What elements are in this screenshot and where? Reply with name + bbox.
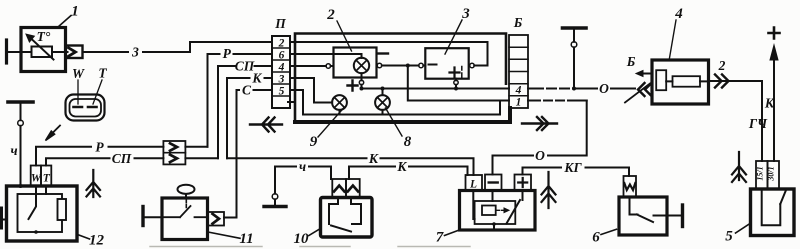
wire 2 to ignition switch [709,81,763,161]
plug pin marks [74,106,97,109]
wire 3 [83,51,129,53]
connector P (instrument plug) [272,36,290,108]
leader for label 7 [445,230,459,235]
svg-text:ч: ч [10,143,17,158]
switch 11 (box) [162,198,208,240]
output chevrons of fuse 4 [715,75,729,88]
wire KG from relay 7 plus to switch 6 [523,168,630,177]
svg-text:6: 6 [279,50,285,62]
dashed mark right of plus [461,67,463,79]
lamp 2 bulb [354,58,369,73]
svg-text:Т: Т [98,66,107,81]
lamp 2 right terminal circle [377,63,382,68]
ignition terminal cell 15/1 [756,161,768,189]
junction node [454,87,458,91]
wire R to pin 6 [208,54,273,147]
connector chevron box right of 11 [208,212,224,226]
svg-text:10: 10 [294,231,310,247]
switch 6 (box) [619,197,667,235]
wire from pin 1 of B (dash-dot) down to relay 7 minus [528,100,587,102]
svg-text:К: К [368,151,379,166]
svg-text:9: 9 [310,134,318,150]
leader for label 6 [601,229,617,234]
svg-text:4: 4 [515,85,522,97]
wire from pin2 across box top to gauge 3 output [295,42,488,66]
wire S to pin 5 [237,90,273,218]
wire 3 continues, step up to pin 2 of P [143,42,272,52]
svg-text:Р: Р [223,46,232,61]
gauge box 2 [334,48,377,78]
ground riser with circle [274,167,276,194]
stubs from P to instrument box [290,42,295,90]
svg-text:8: 8 [404,134,412,150]
chevrons in connector pair [170,143,177,150]
svg-text:2: 2 [718,58,726,73]
svg-text:СП: СП [112,151,132,166]
terminal W cell on box 12 [31,166,41,187]
leader for label 8 [386,108,403,136]
gauge 3 bottom stub with terminal circle [455,79,457,81]
sender 10 wiper [331,226,351,232]
gauge 3 left terminal circle [419,63,424,68]
wire pin5 down and along bottom bus [295,90,500,115]
leader for label 3 [445,20,462,54]
upper wire K from P pin 3 to relay 7 [227,158,474,175]
arrow through resistor [31,39,54,60]
SECTION: connector P and nest wires [208,16,296,218]
lamp 2 bottom lead with terminal circle [361,73,363,80]
gauge 3 right terminal circle [470,63,475,68]
svg-text:Б: Б [513,15,523,30]
relay 7 terminal minus [485,175,502,191]
ignition terminal cell 30/1 [768,161,780,189]
thick bottom border of big box [295,108,510,122]
zigzags in sender cells [334,186,344,192]
relay 7 inner box [475,201,516,224]
wire SP from T cell [46,158,163,165]
switch 11 internals [162,206,208,217]
svg-text:11: 11 [239,231,253,247]
overhead terminal bar [563,26,587,30]
fuse block 4 (box) [652,60,709,104]
plus inside gauge 3 [450,68,460,78]
relay 7 terminal L [466,175,483,191]
svg-text:W: W [72,66,85,81]
scan edge line at bottom [150,246,470,248]
wire O from pin 4 of B (dash-dot) [528,88,635,90]
leader for label 2 [337,21,352,51]
arrow to battery [641,73,652,75]
junction node [381,87,385,91]
top-left terminal bar [8,100,33,104]
terminal stem with circle [573,30,575,42]
relay 7 (box) [460,191,536,231]
svg-text:3: 3 [278,74,285,86]
wire from junction down to pin 1 of B [408,66,509,101]
svg-text:ГЧ: ГЧ [748,116,768,131]
svg-text:1: 1 [516,97,522,109]
plus feed arrow top right [769,28,780,39]
SECTION: bottom middle relays 7 10 11 and ground [227,101,683,248]
sender 10 connector cell left [332,179,346,197]
leader for label 4 [670,20,677,58]
svg-text:2: 2 [326,7,335,23]
svg-text:6: 6 [592,230,600,246]
svg-text:7: 7 [436,230,444,246]
svg-text:Б: Б [626,54,636,69]
stub of empty pin [288,101,295,103]
wire O down to relay 7 [493,101,587,175]
relay 7 contact blade [473,191,522,224]
inner terminal square of fuse block [656,70,666,90]
box 12 internals: contact and resistor [18,194,63,232]
dashed actuator arrow [497,209,504,211]
leader for label 1 [58,16,71,28]
left terminal bar of 11 [141,207,144,226]
leader for label 12 [78,235,90,240]
detachable joint: chevrons and slash before fuse 4 [638,83,652,96]
svg-text:КГ: КГ [563,160,582,175]
svg-text:12: 12 [89,232,105,248]
lamp 8 [375,95,390,110]
svg-text:4: 4 [278,62,285,74]
relay 12 (box) [7,186,78,241]
svg-text:15/1: 15/1 [756,166,765,180]
switch 6 contacts [630,197,668,222]
connector B cells [509,35,528,108]
lamp 8 bottom lead [382,110,384,115]
left chevron arrow under P connector [250,118,282,132]
wire pin3 to lamp 9 [295,78,332,103]
resistor inside sensor 1 [32,47,53,58]
wire K to pin 3 [227,78,272,158]
wire [7,51,22,53]
svg-text:О: О [535,148,545,163]
leader for label 5 [736,224,751,234]
SECTION: top-left sensor component 1 [7,4,273,72]
wire SP to pin 4 [218,66,272,158]
minus inside gauge 3 [429,64,437,66]
svg-text:К: К [764,96,775,111]
terminal T cell on box 12 [41,166,51,187]
svg-text:3: 3 [131,45,139,60]
svg-text:5: 5 [725,229,733,245]
instrument cluster outline (big box) [295,34,506,84]
sender 10 connector cell right [346,179,360,197]
svg-text:30/1: 30/1 [767,166,776,181]
lamp 8 top lead [382,89,384,96]
SECTION: big instrument box with lamps [288,6,557,150]
svg-text:1: 1 [71,4,79,20]
wire to right terminal [667,215,683,217]
relay 7 coil rect [482,206,496,216]
junction node [406,64,410,68]
svg-text:Р: Р [95,139,104,154]
wire pin6 to lamp 2 top [295,54,362,58]
temperature sensor 1 (box) [21,28,66,72]
svg-text:К: К [396,159,407,174]
svg-text:К: К [251,71,262,86]
ignition switch 5 (box) [751,189,795,236]
sender 10 internals [329,200,361,224]
wire R from W cell [36,147,163,166]
fuel sender 10 (box) [321,198,373,238]
connector pair for R and SP wires [163,141,185,164]
switch blade [780,191,785,204]
junction node [492,222,496,226]
leader for label 10 [309,229,321,236]
svg-text:ч: ч [299,159,306,174]
right chevron arrow under B connector [522,117,557,130]
svg-text:Т: Т [43,173,51,185]
svg-text:L: L [469,179,477,191]
leader for label 11 [208,232,240,238]
wire through resistor [21,51,66,53]
lamp symbol on switch 11 [178,185,195,194]
svg-text:5: 5 [279,86,285,98]
terminal bar right of switch 6 [681,205,684,227]
left terminal bar of 12 [0,208,3,228]
svg-text:С: С [242,83,252,98]
relay 7 terminal plus [515,175,532,191]
lamp 9 [332,95,347,110]
harness chevron right of relay 7 [542,172,556,208]
leaders from W and T to pins [78,80,102,104]
terminal bar left of sensor 1 [5,40,8,63]
harness chevron right of 12 [87,170,101,197]
harness chevron near ignition [732,152,746,182]
SECTION: bottom left component 12 and plug [2,66,471,249]
plus sign near lamp 2 bottom [348,81,358,91]
gauge box 3 [425,48,468,78]
bus wire to pin 4 of B [362,88,510,90]
plug W-T (rounded connector) [66,95,105,121]
terminal stem with circle [20,104,22,120]
sender 10 right pin drop [348,167,350,180]
arrow from plug toward 12 [51,126,60,135]
svg-text:П: П [274,16,286,31]
svg-text:Т°: Т° [37,29,51,44]
svg-text:О: О [599,81,609,96]
wire lamp2 right to gauge 3 left [382,65,419,67]
leader for label 9 [318,108,344,138]
connector chevron box right of sensor 1 [66,46,83,59]
fuse element [673,76,701,87]
junction node on box 12 [19,184,23,188]
wires from pair to risers [185,147,218,159]
lower wire K from sender 10 to relay 7 [349,167,468,176]
switch 6 connector cell [624,176,637,197]
lamp 2 left terminal circle [326,64,331,69]
minus sign right of gauge 2 [379,52,389,54]
ignition switch contacts [762,189,781,225]
lamp 9 bottom lead [339,110,341,115]
junction node [572,87,576,91]
ground bar [264,205,286,208]
wire [66,51,68,53]
svg-text:2: 2 [278,38,285,50]
wire pin4 to lamp 2 left terminal [295,65,326,67]
wire ch from ground to sender 10 [275,167,331,180]
SECTION: right side fuse 4, ignition 5 [528,6,794,245]
junction node [360,87,364,91]
